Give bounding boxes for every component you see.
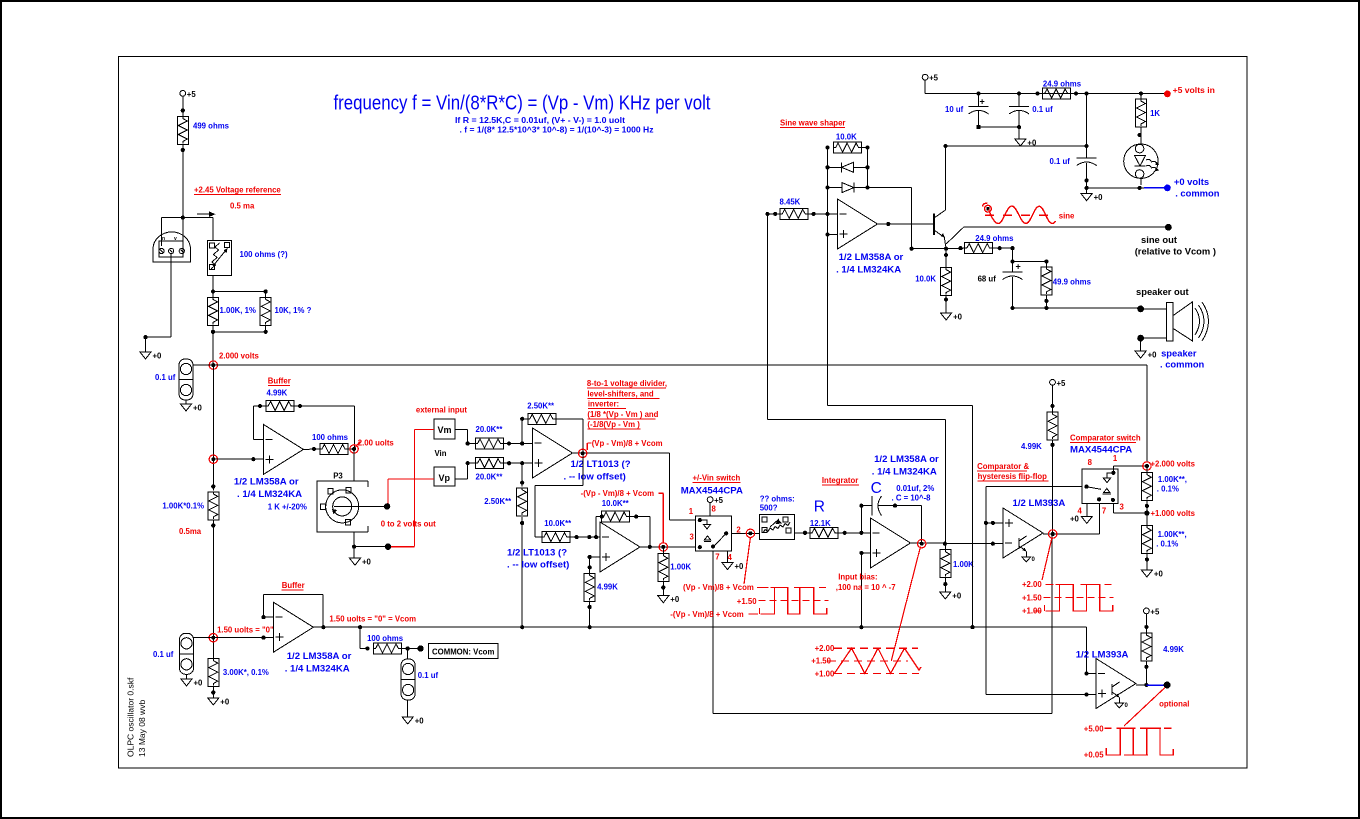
svg-text:4.99K: 4.99K (597, 583, 618, 592)
resistor 1K (1135, 94, 1160, 145)
wire vref middle pin to ground (143, 254, 171, 352)
svg-text:. common: . common (1160, 359, 1205, 370)
svg-text:2.000 volts: 2.000 volts (219, 352, 260, 361)
ground switch1 (722, 562, 744, 571)
resistor 12.1K (810, 519, 838, 538)
red pointer comparator wave (1042, 538, 1052, 581)
svg-text:(Vp - Vm)/8 + Vcom: (Vp - Vm)/8 + Vcom (592, 439, 663, 448)
wire integrator out to sine shaper (768, 214, 946, 544)
label Comparator & hysteresis flip-flop (977, 462, 1049, 481)
svg-text:R: R (814, 499, 825, 516)
svg-text:1: 1 (689, 507, 694, 516)
resistor 10.0K shaper (834, 133, 868, 154)
op-amp LT1013 second (507, 522, 640, 572)
resistor 100 ohms buffer1 (312, 433, 349, 454)
svg-text:n: n (162, 236, 165, 242)
wire RC bottom rail (1010, 306, 1140, 310)
wire common rail (1085, 186, 1165, 194)
capacitor C integrator (859, 496, 921, 544)
svg-text:2.00 uolts: 2.00 uolts (358, 439, 395, 448)
svg-text:+1.50: +1.50 (1022, 594, 1042, 603)
terminal P3 bottom (385, 544, 391, 550)
wire shaper feedback right rail (865, 146, 869, 190)
potentiometer P3 1K (268, 472, 387, 533)
box COMMON: Vcom (429, 644, 499, 659)
switch2 MAX4544 box (1082, 469, 1118, 504)
svg-text:inverter:: inverter: (588, 399, 619, 408)
wire 12.1K to integrator (838, 531, 871, 535)
svg-text:frequency f = Vin/(8*R*C) = (V: frequency f = Vin/(8*R*C) = (Vp - Vm) KH… (334, 93, 711, 115)
svg-text:. -- low offset): . -- low offset) (564, 472, 626, 483)
svg-text:499 ohms: 499 ohms (193, 122, 230, 131)
potentiometer 100 ohms (207, 240, 288, 275)
resistor 2.50K vertical (484, 488, 527, 525)
wire LT2 plus to 4.99K (588, 555, 600, 574)
wire buffer2 feedback (261, 594, 323, 627)
frame inner schematic border (119, 57, 1248, 769)
label 8-to-1 divider block (587, 379, 667, 429)
wire common branch (358, 625, 367, 648)
switch1 pin labels (689, 507, 742, 562)
capacitor 0.1uf common (401, 649, 438, 718)
svg-text:+2.00: +2.00 (815, 644, 835, 653)
red pointer triangle wave (891, 547, 920, 661)
power +5 comparator (1050, 379, 1066, 412)
capacitor 0.1uf rail (1009, 94, 1053, 128)
svg-text:1/2 LM358A or: 1/2 LM358A or (839, 252, 904, 263)
resistor 10.0K emitter (915, 249, 951, 313)
junction node vref (181, 216, 185, 220)
wire integrator plus to bus (859, 551, 870, 629)
svg-text:3: 3 (1120, 503, 1125, 512)
svg-text:. 1/4 LM324KA: . 1/4 LM324KA (285, 664, 350, 675)
label Buffer 1 (268, 377, 291, 386)
svg-text:+5: +5 (187, 90, 197, 99)
svg-text:-(Vp - Vm)/8 + Vcom: -(Vp - Vm)/8 + Vcom (670, 610, 744, 619)
svg-text:+0: +0 (220, 698, 230, 707)
ground 10.0K emitter (941, 313, 963, 322)
label +2.45 Voltage reference (194, 186, 281, 211)
svg-text:MAX4544CPA: MAX4544CPA (1070, 444, 1132, 455)
ground divider (1141, 570, 1163, 579)
svg-text:MAX4544CPA: MAX4544CPA (681, 486, 743, 497)
svg-text:. common: . common (1175, 188, 1220, 199)
speaker SP1 (1166, 302, 1208, 341)
svg-text:10K, 1% ?: 10K, 1% ? (275, 306, 312, 315)
wire red Vm (391, 429, 434, 546)
wire pot to divider (211, 275, 215, 297)
label Vin (435, 449, 447, 458)
node 2.000 volts (209, 352, 259, 370)
red pointer switch1 wave (744, 538, 750, 585)
wire buffer1 feedback (253, 406, 354, 449)
wire vref loop left (162, 218, 183, 246)
svg-text:. C = 10^-8: . C = 10^-8 (892, 494, 932, 503)
ground vref (140, 352, 162, 361)
wire switch2 pin3 (1113, 504, 1147, 513)
svg-text:1.00K: 1.00K (953, 560, 974, 569)
svg-text:1.50 uolts = "0" = Vcom: 1.50 uolts = "0" = Vcom (329, 615, 416, 624)
wire sine out (946, 227, 1168, 244)
svg-text:1/2 LT1013 (?: 1/2 LT1013 (? (571, 459, 631, 470)
diode D1 left (828, 162, 868, 172)
wire emitter node (910, 237, 949, 250)
resistor 8.45K (765, 198, 815, 220)
svg-text:Comparator &: Comparator & (977, 462, 1029, 471)
resistor 24.9 ohms sine (946, 234, 1014, 254)
LM393-1 inner transistor (1019, 536, 1036, 563)
svg-text:1.50 uolts = "0": 1.50 uolts = "0" (217, 626, 274, 635)
svg-text:+5: +5 (1150, 607, 1160, 616)
svg-text:+0: +0 (952, 592, 962, 601)
svg-text:1/2 LM358A or: 1/2 LM358A or (874, 454, 939, 465)
svg-text:8-to-1 voltage divider,: 8-to-1 voltage divider, (587, 379, 667, 388)
svg-text:+2.000 volts: +2.000 volts (1151, 460, 1196, 469)
svg-text:8: 8 (712, 505, 717, 514)
svg-text:Integrator: Integrator (822, 476, 858, 485)
node 2.00 volts (348, 439, 394, 454)
svg-text:10 uf: 10 uf (945, 105, 964, 114)
sine waveform sketch (983, 203, 1076, 224)
svg-text:. 0.1%: . 0.1% (1157, 485, 1179, 494)
resistor 1.00K LT2 load (658, 547, 692, 596)
ground 3.00K (208, 698, 230, 707)
ground rail caps (1015, 139, 1037, 148)
svg-text:v: v (174, 236, 177, 242)
terminal COMMON (417, 645, 423, 651)
svg-text:0.1 uf: 0.1 uf (155, 373, 176, 382)
svg-text:1.00K: 1.00K (670, 563, 691, 572)
wire buffer2 +input (213, 636, 273, 640)
svg-text:Sine wave shaper: Sine wave shaper (780, 119, 845, 128)
svg-text:2.50K**: 2.50K** (527, 402, 555, 411)
label +/-Vin switch (681, 474, 743, 497)
svg-text:100 ohms (?): 100 ohms (?) (240, 250, 288, 259)
svg-text:1.00K*0.1%: 1.00K*0.1% (162, 502, 204, 511)
wire flipflop bottom loop (713, 534, 1052, 713)
svg-text:sine out: sine out (1141, 234, 1177, 245)
svg-text:+0: +0 (1070, 515, 1080, 524)
wire shaper out to base (878, 222, 935, 226)
wire 4.99K to bus (588, 601, 592, 629)
resistor 4.99K LT2 (584, 573, 618, 609)
power +5 optional (1144, 607, 1160, 634)
potentiometer 500 ohms (760, 495, 795, 540)
node +1.000 volts (1144, 509, 1195, 518)
terminal P3 wiper 0-2V out (381, 503, 436, 528)
power +5 rail (922, 74, 938, 94)
resistor 4.99K pullup (1021, 412, 1058, 534)
svg-text:COMMON: Vcom: COMMON: Vcom (432, 648, 494, 657)
svg-text:,100 na = 10 ^ -7: ,100 na = 10 ^ -7 (836, 583, 896, 592)
svg-text:+/-Vin switch: +/-Vin switch (693, 474, 741, 483)
op-amp shaper LM358 (836, 199, 903, 276)
terminal speaker out (1136, 286, 1189, 312)
wire minus to 2.50K top (520, 417, 528, 444)
svg-text:10.0K**: 10.0K** (544, 519, 572, 528)
svg-text:. 1/4 LM324KA: . 1/4 LM324KA (237, 489, 302, 500)
wire +5 to R 499 (181, 96, 185, 117)
svg-text:OLPC oscillator 0.skf: OLPC oscillator 0.skf (126, 677, 136, 757)
title sheet name rotated (126, 677, 148, 757)
svg-text:68 uf: 68 uf (978, 275, 997, 284)
label Comparator switch (1070, 433, 1141, 455)
svg-text:1/2 LM358A or: 1/2 LM358A or (234, 477, 299, 488)
wire R499 to vref node (181, 145, 185, 247)
wire to LT2 minus (570, 535, 600, 539)
resistor 4.99K optional (1141, 633, 1184, 685)
resistor 3.00K 0.1% (208, 659, 269, 698)
svg-text:sine: sine (1059, 212, 1075, 221)
box Vm (434, 419, 455, 439)
svg-text:3: 3 (690, 533, 695, 542)
svg-text:+5 volts in: +5 volts in (1173, 85, 1215, 95)
svg-text:C: C (871, 480, 882, 497)
power +5 top-left (180, 90, 196, 102)
svg-text:hysteresis flip-flop: hysteresis flip-flop (978, 472, 1048, 481)
wire comparator plus input (984, 521, 1003, 525)
svg-text:1/2 LM393A: 1/2 LM393A (1013, 498, 1066, 509)
wire switch1 pin7 flipflop (712, 551, 714, 713)
label -(Vp-Vm)/8+Vcom (581, 489, 664, 543)
svg-text:speaker out: speaker out (1136, 286, 1189, 297)
svg-text:Buffer: Buffer (282, 581, 305, 590)
resistor 1.00K 1% (208, 297, 256, 325)
label Sine wave shaper (780, 119, 845, 128)
wire hysteresis feedback (986, 486, 1082, 694)
svg-text:+5.00: +5.00 (1084, 725, 1104, 734)
wire 20.0K to plus (504, 461, 533, 465)
terminal +0 volts common (1144, 176, 1220, 199)
resistor divider 1.00K lower (1141, 526, 1186, 570)
LM393-2 inner transistor (1112, 682, 1129, 709)
wire collector (945, 146, 947, 210)
red pointer optional wave (1124, 688, 1165, 727)
wire hysteresis to LM393-2 plus (986, 692, 1096, 696)
title formula (334, 93, 711, 135)
svg-text:24.9 ohms: 24.9 ohms (1043, 80, 1082, 89)
wire bus to +2.000 node (1146, 365, 1148, 462)
wire caps to ground (977, 125, 1022, 139)
svg-text:1K: 1K (1150, 109, 1160, 118)
label R (814, 499, 825, 516)
resistor 10K 1% (260, 297, 311, 325)
svg-text:+0.05: +0.05 (1084, 751, 1104, 760)
svg-text:100 ohms: 100 ohms (367, 634, 404, 643)
wire 20.0K to minus (504, 441, 533, 445)
svg-text:+1.50: +1.50 (737, 597, 757, 606)
svg-text:. -- low offset): . -- low offset) (507, 560, 569, 571)
svg-text:Vp: Vp (439, 473, 451, 483)
wire left rail 2.000V down (212, 365, 214, 490)
svg-text:?? ohms:: ?? ohms: (760, 495, 795, 504)
op-amp comparator LM393 first (1003, 498, 1065, 558)
svg-text:+0 volts: +0 volts (1174, 176, 1209, 187)
svg-text:(relative to Vcom ): (relative to Vcom ) (1135, 246, 1216, 257)
svg-text:1.00K, 1%: 1.00K, 1% (220, 306, 256, 315)
wire Vcom bus (313, 626, 1086, 628)
svg-text:1 K +/-20%: 1 K +/-20% (268, 503, 307, 512)
label input bias (836, 573, 896, 593)
capacitor 0.1uf left2 (153, 633, 213, 679)
svg-text:Input bias:: Input bias: (838, 573, 877, 582)
ground cap3 (402, 717, 424, 726)
svg-text:+0: +0 (193, 404, 203, 413)
wire Vp to 20.0K (455, 461, 475, 479)
svg-text:+0: +0 (194, 679, 204, 688)
svg-text:1/2 LM358A or: 1/2 LM358A or (287, 651, 352, 662)
wire switch2 pin1 to +2.000 (1113, 466, 1147, 473)
waveform square comparator (1022, 580, 1114, 616)
wire inverter feedback (596, 515, 652, 550)
svg-text:+5: +5 (929, 74, 939, 83)
svg-text:+2.45 Voltage reference: +2.45 Voltage reference (194, 186, 281, 195)
capacitor 10uf (945, 94, 989, 128)
svg-text:. 0.1%: . 0.1% (1156, 540, 1178, 549)
ground speaker (1135, 348, 1204, 370)
svg-text:10.0K: 10.0K (836, 133, 857, 142)
wire P3 bottom (352, 532, 388, 558)
label (Vp-Vm)/8+Vcom (587, 439, 662, 450)
waveform triangle integrator (811, 644, 921, 679)
resistor 10.0K inverter input (535, 519, 572, 543)
op-amp LT1013 first (533, 428, 631, 483)
svg-text:+1.000 volts: +1.000 volts (1151, 509, 1196, 518)
op-amp integrator LM358 (871, 454, 940, 568)
svg-text:. 1/4 LM324KA: . 1/4 LM324KA (872, 467, 937, 478)
diode D2 right (828, 183, 868, 193)
svg-text:+: + (980, 97, 985, 107)
node switch1 output (731, 529, 759, 537)
wire 2.50K to Vcom bus (520, 517, 524, 630)
wire 2.000V bus (213, 364, 1147, 366)
wire red Vp (388, 479, 434, 503)
svg-text:3.00K*, 0.1%: 3.00K*, 0.1% (223, 668, 269, 677)
resistor 49.9 ohms (1041, 267, 1092, 308)
svg-text:+0: +0 (1094, 193, 1104, 202)
box Vp (434, 467, 455, 486)
svg-text:Buffer: Buffer (268, 377, 291, 386)
svg-text:+5: +5 (1057, 379, 1067, 388)
svg-text:0 to 2 volts out: 0 to 2 volts out (381, 520, 436, 529)
power +5 switch1 (707, 496, 723, 516)
label C (871, 480, 882, 497)
switch2 pin labels (1078, 454, 1125, 515)
svg-text:optional: optional (1159, 700, 1189, 709)
wire pot500 to 12.1K (795, 531, 811, 535)
svg-text:(-1/8(Vp - Vm ): (-1/8(Vp - Vm ) (587, 420, 640, 429)
resistor 24.9 ohms rail (1035, 80, 1081, 100)
svg-text:0.1 uf: 0.1 uf (153, 650, 174, 659)
svg-text:0.1 uf: 0.1 uf (418, 671, 439, 680)
terminal sine out (1135, 224, 1216, 257)
svg-text:+0: +0 (735, 562, 745, 571)
svg-text:. f = 1/(8* 12.5*10^3* 10^-8): . f = 1/(8* 12.5*10^3* 10^-8) = 1/(10^-3… (460, 126, 654, 135)
svg-text:13 May 08 wvb: 13 May 08 wvb (137, 700, 147, 757)
svg-text:2.50K**: 2.50K** (484, 497, 512, 506)
node LT1 output (573, 449, 670, 457)
wire left rail to 1.50 node (162, 484, 218, 658)
svg-text:If R = 12.5K,C = 0.01uf, (V+ -: If R = 12.5K,C = 0.01uf, (V+ - V-) = 1.0… (455, 116, 625, 125)
svg-text:+0: +0 (1148, 351, 1158, 360)
svg-text:(Vp - Vm)/8 + Vcom: (Vp - Vm)/8 + Vcom (683, 583, 754, 592)
svg-text:20.0K**: 20.0K** (476, 473, 504, 482)
svg-text:1: 1 (1113, 454, 1118, 463)
svg-text:0.1 uf: 0.1 uf (1032, 105, 1053, 114)
ground P3 (350, 558, 372, 567)
svg-text:10.0K**: 10.0K** (602, 499, 630, 508)
arrow 0.5ma (197, 211, 216, 217)
ground switch2 (1070, 515, 1092, 524)
wire comparator out to switch2 pin7 (1099, 504, 1101, 534)
wire plus to 2.50K vert (520, 463, 524, 487)
svg-text:+1.00: +1.00 (815, 670, 835, 679)
svg-text:Vm: Vm (438, 425, 452, 435)
waveform square after Vin switch (670, 583, 828, 619)
terminal optional output (1159, 682, 1189, 709)
waveform square optional (1084, 725, 1174, 760)
svg-text:49.9 ohms: 49.9 ohms (1053, 278, 1092, 287)
wire shaper feedback left rail (825, 146, 829, 406)
wire LM393-2 output (1136, 683, 1164, 687)
wire switch1 pin4 ground (727, 551, 729, 563)
ground 1.00K LT2 (658, 595, 680, 604)
svg-text:0.5 ma: 0.5 ma (230, 202, 255, 211)
wire LT1 out to switch pin1 (669, 453, 695, 520)
ground cap1 (181, 404, 203, 413)
svg-text:P3: P3 (333, 472, 343, 481)
svg-text:4: 4 (728, 553, 733, 562)
wire RC top rail (1010, 246, 1048, 272)
wire 0.1uf2 branch (943, 94, 1088, 159)
svg-text:7: 7 (1102, 506, 1106, 515)
wire buffer1 output (303, 447, 320, 451)
voltage reference U1 TO-92 (153, 232, 191, 262)
svg-text:4.99K: 4.99K (1021, 442, 1042, 451)
wire Vm to 20.0K (455, 429, 475, 445)
svg-text:10.0K: 10.0K (915, 275, 936, 284)
resistor 1.00K integrator load (940, 544, 974, 592)
svg-text:8: 8 (1088, 458, 1093, 467)
label Integrator (822, 476, 859, 485)
node integrator output (911, 540, 1003, 548)
ground common rail (1081, 193, 1103, 202)
ground 1.00K integrator (940, 592, 962, 601)
svg-text:1/2 LT1013 (?: 1/2 LT1013 (? (507, 548, 567, 559)
resistor 499 ohms (177, 117, 229, 145)
svg-text:+0: +0 (953, 313, 963, 322)
resistor 20.0K upper (476, 425, 504, 449)
svg-text:+2.00: +2.00 (1022, 580, 1042, 589)
op-amp LM393 second (1076, 650, 1136, 709)
svg-text:speaker: speaker (1161, 348, 1197, 359)
svg-text:-(Vp - Vm)/8 + Vcom: -(Vp - Vm)/8 + Vcom (581, 489, 655, 498)
label cap value (892, 484, 935, 503)
svg-text:external input: external input (416, 406, 468, 415)
svg-text:100 ohms: 100 ohms (312, 433, 349, 442)
resistor 2.50K feedback (527, 402, 556, 425)
resistor 10.0K inverter feedback (602, 499, 630, 522)
terminal +5 volts in (1164, 85, 1215, 97)
svg-text:+: + (1016, 262, 1021, 272)
resistor divider 1.00K upper (1141, 466, 1187, 527)
svg-text:0.01uf, 2%: 0.01uf, 2% (896, 484, 934, 493)
capacitor 0.1uf decoupling (1050, 157, 1097, 188)
svg-text:. 1/4 LM324KA: . 1/4 LM324KA (836, 265, 901, 276)
wire LT1 out to inverter (535, 453, 583, 537)
wire +5 rail (925, 91, 1164, 95)
node Vcom output (321, 615, 416, 630)
